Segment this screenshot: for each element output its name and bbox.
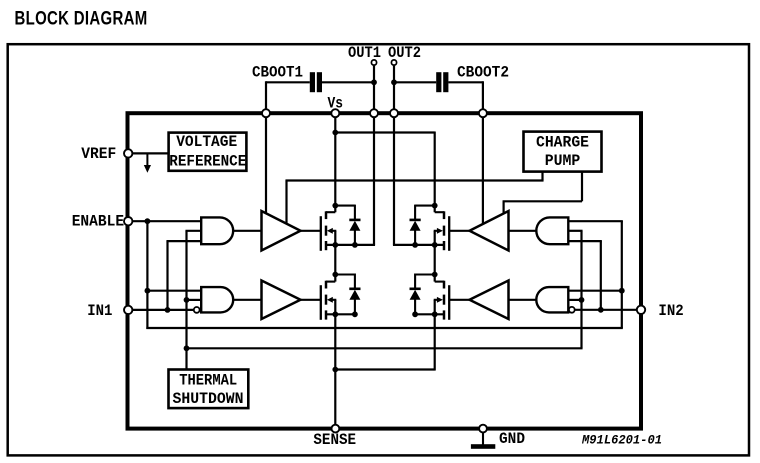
junction Vs rail [332,130,338,136]
junction ENABLE to lower-right AND [619,288,625,294]
svg-text:IN1: IN1 [87,302,112,320]
svg-text:CBOOT2: CBOOT2 [457,64,509,82]
diode upper-left [335,205,355,207]
wire IN1 vertical [166,241,168,310]
junction IN2 split [598,307,604,313]
wire sense horizontal [335,368,434,370]
svg-text:GND: GND [499,430,525,448]
junction upper-right drain [432,203,438,209]
transistor lower-left DMOS [320,285,322,320]
buffer lower-left [262,281,301,320]
wire ENABLE vertical right [621,221,623,328]
svg-text:BLOCK DIAGRAM: BLOCK DIAGRAM [15,9,148,30]
pin SENSE [332,425,340,433]
junction lower-right source node [432,311,438,317]
wire lower-right AND output [509,299,537,301]
wire OUT1 pin to Vs bus [373,66,375,109]
wire Vs internal rail [335,131,434,133]
pin VREF [124,149,132,157]
svg-text:SENSE: SENSE [313,431,356,449]
junction lower-right drain [432,272,438,278]
svg-text:VREF: VREF [81,145,116,163]
junction CBOOT2-OUT2 [391,79,397,85]
wire charge pump drop 1 [541,172,543,181]
junction lower-left drain [332,272,338,278]
node bootstrap left [262,109,270,117]
wire ENABLE to lower-left AND [147,290,201,292]
junction lower-left source node [332,311,338,317]
junction IN1 split [165,307,171,313]
junction upper-left diode anode [352,242,358,248]
junction lower-right diode anode [412,311,418,317]
junction ENABLE to lower-left AND [145,288,151,294]
junction sense [332,367,338,373]
svg-text:THERMAL: THERMAL [179,371,237,389]
junction upper-left drain [332,203,338,209]
wire upper-right source to OUT2 [393,244,444,246]
wire charge pump drop 2 [581,172,583,202]
wire CBOOT1 left plate to bootstrap node [266,81,310,83]
capacitor CBOOT1 [310,72,315,92]
AND gate upper-left [201,217,233,244]
wire ENABLE vertical left [146,221,148,329]
wire IN2 to inverter bubble [575,309,637,311]
diode lower-right [415,273,435,275]
wire thermal to upper-left AND [185,230,201,232]
wire thermal long horizontal [187,347,583,349]
wire thermal to lower-right AND [568,299,581,301]
transistor upper-left DMOS [320,216,322,251]
svg-text:OUT1: OUT1 [348,44,381,62]
pin OUT1 [371,60,376,65]
wire IN2 to upper-right AND [568,240,602,242]
wire upper-left AND output [233,230,261,232]
AND gate upper-right [536,217,568,244]
wire OUT1 column to left source node [373,118,375,245]
wire thermal vertical right [580,231,582,348]
svg-text:VOLTAGE: VOLTAGE [176,133,237,151]
wire VREF to voltage reference [132,152,169,154]
svg-text:ENABLE: ENABLE [72,213,124,231]
junction thermal to lower-right AND [579,297,585,303]
wire left bootstrap to upper-left buffer [265,118,267,215]
pin IN2 [637,306,645,314]
junction upper-right diode anode [412,242,418,248]
wire CBOOT1 right plate to OUT1 [322,81,374,83]
wire ENABLE long horizontal [146,327,622,329]
svg-text:M91L6201-01: M91L6201-01 [581,433,662,447]
block THERMAL SHUTDOWN [169,370,249,409]
pin GND [479,425,487,433]
wire OUT2 column to right source node [393,118,395,245]
svg-text:IN2: IN2 [658,302,683,320]
wire lower-right buffer to gate [449,299,469,301]
svg-text:CHARGE: CHARGE [536,133,589,151]
wire right bootstrap to upper-right buffer [482,118,484,226]
wire CBOOT2 left plate to OUT2 [394,81,436,83]
IC body outline [128,113,642,428]
junction upper-right source node [432,242,438,248]
junction thermal split [184,345,190,351]
junction lower-left diode anode [352,311,358,317]
pin Vs [331,109,339,117]
wire IN1 to inverter bubble [132,309,194,311]
current reference arrow [146,153,148,166]
wire Vs rail to right upper drain [434,131,436,212]
junction ENABLE split [145,218,151,224]
diode lower-left [335,273,355,275]
capacitor CBOOT2 [436,72,441,92]
ground symbol [471,444,495,449]
transistor lower-right DMOS [448,285,450,320]
wire IN1 to upper-left AND [166,240,201,242]
inverter bubble lower-left AND [194,307,200,313]
block CHARGE PUMP [524,132,602,172]
node OUT1 on bus [370,109,378,117]
wire charge pump tap upper-left buffer [285,181,287,225]
wire upper-left buffer to gate [301,230,321,232]
junction CBOOT1-OUT1 [371,79,377,85]
transistor upper-right DMOS [448,216,450,251]
block VOLTAGE REFERENCE [169,133,247,171]
wire CBOOT2 right plate to bootstrap node [448,81,483,83]
wire upper-right buffer to gate [449,230,469,232]
wire charge pump right rail [503,200,582,202]
inverter bubble lower-right AND [569,307,575,313]
wire left output column [334,245,336,282]
buffer lower-right [470,281,509,320]
pin OUT2 [391,60,396,65]
wire ENABLE to upper-left AND [132,220,202,222]
wire IN2 vertical [600,241,602,310]
wire thermal vertical left [185,231,187,369]
junction upper-left source node [332,242,338,248]
wire right output column [434,245,436,282]
svg-text:SHUTDOWN: SHUTDOWN [173,390,244,408]
svg-text:PUMP: PUMP [545,152,581,170]
AND gate lower-right [536,287,568,312]
wire lower-left source [326,313,355,315]
buffer upper-left [262,211,301,251]
wire right sense column [434,314,436,370]
wire Vs feed left upper drain [334,118,336,213]
wire lower-right source [415,313,444,315]
wire GND stem [482,433,484,445]
wire charge pump left rail [285,179,543,181]
svg-text:REFERENCE: REFERENCE [169,152,246,170]
wire upper-right AND output [509,230,537,232]
wire ENABLE to lower-right AND [568,290,622,292]
wire lower-left buffer to gate [301,299,321,301]
wire thermal to upper-right AND [568,230,582,232]
junction thermal to lower-left AND [184,297,190,303]
AND gate lower-left [201,287,233,312]
svg-text:CBOOT1: CBOOT1 [252,64,303,82]
pin IN1 [124,306,132,314]
wire upper-left source to OUT1 [326,244,375,246]
wire OUT2 pin to Vs bus [393,66,395,109]
wire thermal to lower-left AND [187,299,202,301]
wire left sense column [334,314,336,424]
wire ENABLE to upper-right AND [568,220,623,222]
pin ENABLE [124,217,132,225]
node OUT2 on bus [390,109,398,117]
node bootstrap right [479,109,487,117]
buffer upper-right [470,211,509,251]
wire charge pump tap upper-right buffer [503,201,505,214]
wire lower-left AND output [233,299,261,301]
diode upper-right [415,205,435,207]
